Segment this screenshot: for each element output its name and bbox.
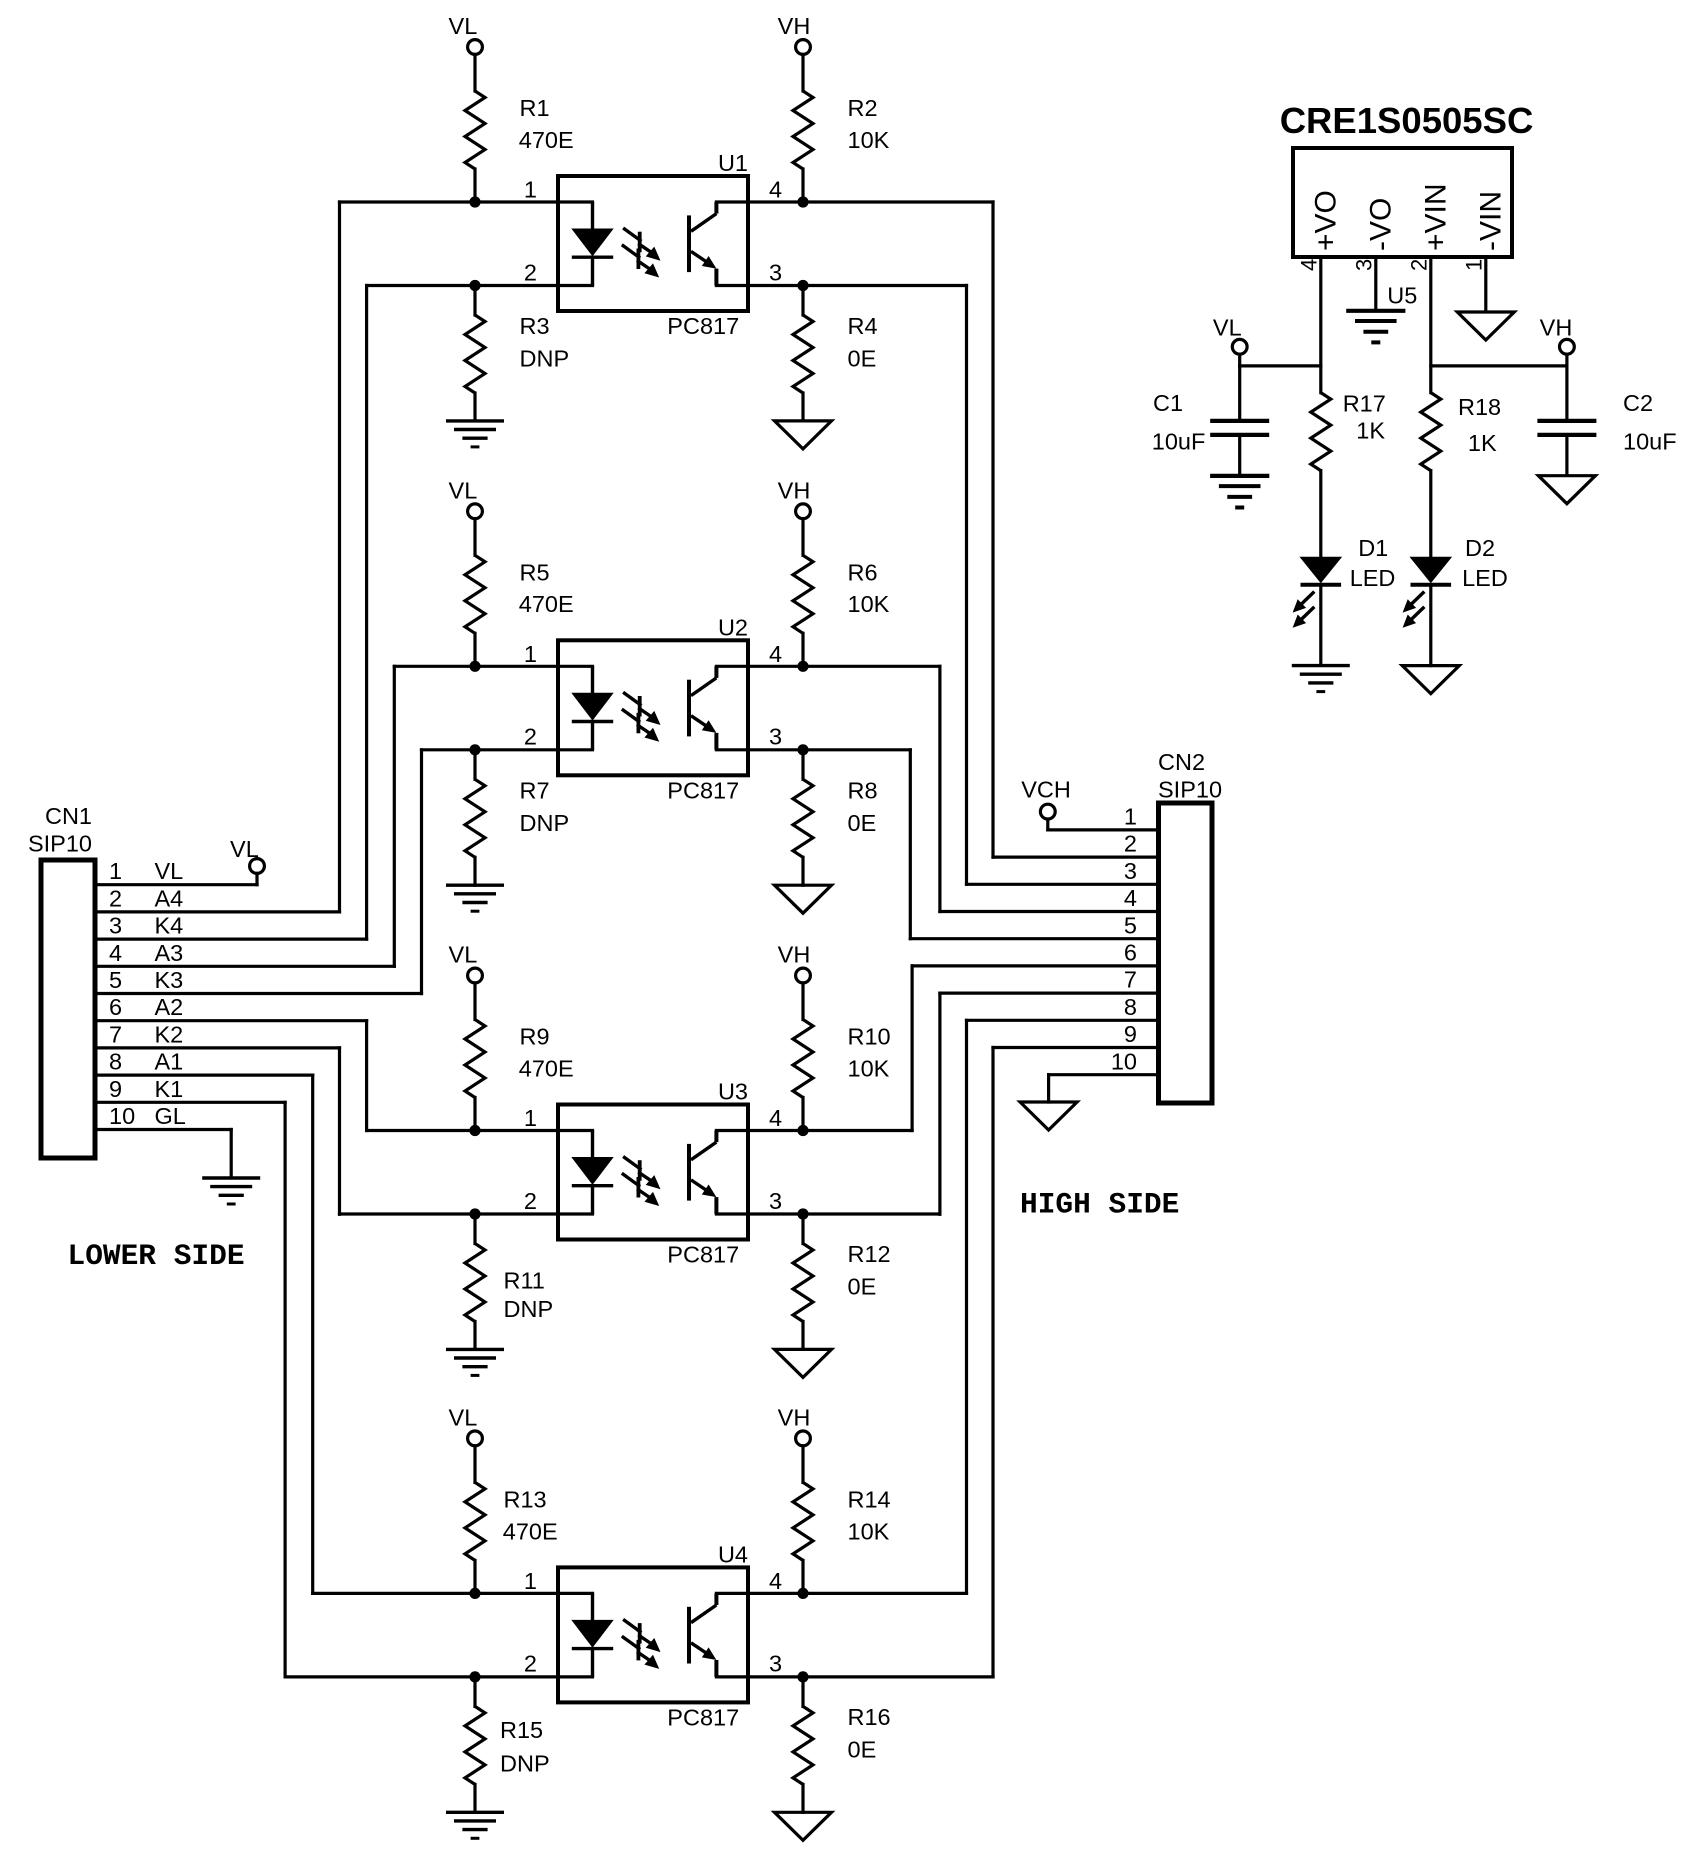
svg-text:2: 2 — [524, 724, 537, 750]
svg-text:2: 2 — [1407, 259, 1432, 271]
label R4 0E — [848, 313, 878, 372]
svg-text:R17: R17 — [1343, 390, 1386, 416]
svg-text:DNP: DNP — [520, 810, 570, 836]
svg-text:C1: C1 — [1153, 390, 1183, 416]
wire U5 pin1 to ground — [1484, 257, 1487, 310]
svg-text:C2: C2 — [1623, 390, 1653, 416]
wire CN2 pin 4 — [940, 910, 1159, 913]
svg-text:VL: VL — [230, 836, 259, 862]
svg-text:1K: 1K — [1356, 418, 1385, 444]
svg-text:R14: R14 — [848, 1487, 891, 1513]
wire CN2 pin 7 — [940, 991, 1159, 994]
svg-text:2: 2 — [524, 1651, 537, 1677]
svg-text:R1: R1 — [520, 95, 550, 121]
junction U1 pin2 — [469, 280, 480, 291]
node VL terminal (U2 anode supply) — [449, 477, 483, 518]
svg-text:CN1: CN1 — [45, 803, 92, 829]
capacitor C1 — [1210, 366, 1269, 474]
wire — [801, 983, 804, 1020]
wire U2 pin3 to CN2 pin5 — [909, 750, 912, 939]
svg-text:1: 1 — [1124, 804, 1137, 830]
wire pin4 U4 — [716, 1592, 966, 1595]
wire pin2 U3 — [340, 1212, 593, 1215]
svg-text:6: 6 — [1124, 940, 1137, 966]
resistor R9 — [465, 1020, 485, 1131]
svg-text:U2: U2 — [718, 614, 748, 640]
ground (lower side) — [446, 885, 504, 911]
wire CN2 pin 3 — [967, 883, 1159, 886]
resistor R17 — [1311, 393, 1331, 558]
svg-text:3: 3 — [769, 259, 782, 285]
svg-text:R13: R13 — [504, 1487, 547, 1513]
ground GL — [202, 1178, 260, 1204]
junction U3 pin3 — [797, 1208, 808, 1219]
svg-text:10K: 10K — [848, 1518, 890, 1544]
wire — [801, 1446, 804, 1483]
wire A1 riser — [311, 1075, 314, 1593]
svg-text:R16: R16 — [848, 1704, 891, 1730]
svg-text:VH: VH — [778, 477, 811, 503]
label R15 DNP — [500, 1717, 550, 1776]
ground (C2) — [1538, 476, 1595, 504]
svg-text:U3: U3 — [718, 1079, 748, 1105]
ground (high side) — [775, 885, 832, 913]
svg-text:3: 3 — [109, 913, 122, 939]
node VL terminal (U3 anode supply) — [449, 942, 483, 983]
resistor R1 — [465, 91, 485, 202]
wire — [473, 983, 476, 1020]
svg-text:PC817: PC817 — [667, 313, 739, 339]
wire CN2 pin 8 — [967, 1019, 1159, 1022]
svg-text:2: 2 — [524, 259, 537, 285]
wire CN2 pin 6 — [912, 964, 1158, 967]
label R8 0E — [848, 777, 878, 836]
wire CN1 pin 3 K4 — [95, 937, 367, 940]
label R17 1K — [1343, 390, 1386, 443]
label R14 10K — [848, 1487, 891, 1545]
svg-text:5: 5 — [1124, 912, 1137, 938]
resistor R16 — [793, 1677, 813, 1812]
wire CN1 pin 2 A4 — [95, 910, 340, 913]
svg-text:+VO: +VO — [1309, 190, 1342, 251]
svg-text:-VO: -VO — [1364, 198, 1397, 251]
wire pin3 U4 — [716, 1675, 993, 1678]
svg-text:DNP: DNP — [500, 1750, 550, 1776]
resistor R12 — [793, 1214, 813, 1349]
label R10 10K — [848, 1024, 891, 1082]
label R12 0E — [848, 1241, 891, 1299]
label R7 DNP — [520, 777, 570, 836]
svg-text:PC817: PC817 — [667, 777, 739, 803]
wire U1 pin4 to CN2 pin2 — [991, 202, 994, 857]
svg-text:VL: VL — [449, 477, 478, 503]
svg-text:K3: K3 — [155, 967, 184, 993]
resistor R11 — [465, 1214, 485, 1349]
svg-text:VCH: VCH — [1021, 776, 1071, 802]
svg-text:VL: VL — [449, 942, 478, 968]
optocoupler U1 PC817 — [558, 176, 748, 311]
junction U4 pin4 — [797, 1588, 808, 1599]
svg-text:+VIN: +VIN — [1419, 183, 1452, 251]
node VH terminal — [778, 942, 811, 983]
svg-text:2: 2 — [109, 885, 122, 911]
node VL terminal (U4 anode supply) — [449, 1405, 483, 1446]
svg-text:8: 8 — [1124, 994, 1137, 1020]
svg-text:6: 6 — [109, 994, 122, 1020]
svg-text:10: 10 — [1111, 1048, 1137, 1074]
connector CN2 SIP10 — [1159, 803, 1213, 1103]
svg-text:0E: 0E — [848, 1737, 877, 1763]
wire pin4 U1 — [716, 200, 993, 203]
wire CN1 pin 7 K2 — [95, 1046, 340, 1049]
LED D2 — [1403, 557, 1452, 665]
resistor R18 — [1421, 393, 1441, 558]
wire CN2 pin 5 — [910, 937, 1158, 940]
wire U3 pin4 to CN2 pin6 — [910, 966, 913, 1131]
label R16 0E — [848, 1704, 891, 1763]
connector CN1 SIP10 — [41, 860, 95, 1158]
ground (U5 -VO) — [1346, 311, 1405, 343]
junction U2 pin4 — [797, 661, 808, 672]
wire CN1 pin 1 VL — [95, 883, 257, 886]
svg-text:470E: 470E — [519, 127, 574, 153]
wire CN1 pin 4 A3 — [95, 965, 394, 968]
wire U2 pin4 to CN2 pin4 — [938, 666, 941, 911]
wire U5 pin3 to ground — [1374, 257, 1377, 309]
ground (high side) — [775, 1349, 832, 1377]
label R18 1K — [1458, 394, 1501, 456]
svg-text:VL: VL — [155, 858, 184, 884]
svg-text:3: 3 — [769, 724, 782, 750]
node VH terminal (input) — [1540, 315, 1575, 355]
wire pin1 U2 — [394, 665, 592, 668]
svg-text:U4: U4 — [718, 1541, 748, 1567]
svg-text:1: 1 — [524, 1568, 537, 1594]
junction U1 pin4 — [797, 196, 808, 207]
svg-text:4: 4 — [1297, 259, 1322, 271]
wire K1 riser — [284, 1102, 287, 1677]
wire CN1 pin 8 A1 — [95, 1073, 313, 1076]
svg-text:10uF: 10uF — [1623, 428, 1677, 454]
junction U3 pin1 — [469, 1125, 480, 1136]
svg-text:470E: 470E — [503, 1518, 558, 1544]
svg-text:3: 3 — [1352, 259, 1377, 271]
svg-text:R2: R2 — [848, 95, 878, 121]
resistor R5 — [465, 555, 485, 666]
optocoupler U3 PC817 — [558, 1105, 748, 1240]
svg-text:A3: A3 — [155, 940, 184, 966]
svg-text:R8: R8 — [848, 777, 878, 803]
wire K2 riser — [338, 1048, 341, 1214]
svg-text:CN2: CN2 — [1158, 749, 1205, 775]
svg-text:1: 1 — [524, 1105, 537, 1131]
wire pin1 U1 — [340, 200, 593, 203]
svg-text:2: 2 — [524, 1188, 537, 1214]
ground (U5 -VIN) — [1457, 312, 1514, 340]
svg-text:LED: LED — [1350, 565, 1396, 591]
svg-text:R6: R6 — [848, 560, 878, 586]
resistor R7 — [465, 750, 485, 885]
svg-text:3: 3 — [769, 1651, 782, 1677]
svg-text:CRE1S0505SC: CRE1S0505SC — [1280, 100, 1534, 141]
svg-text:10K: 10K — [848, 591, 890, 617]
svg-text:PC817: PC817 — [667, 1242, 739, 1268]
ground (lower side) — [446, 1812, 504, 1838]
svg-text:4: 4 — [769, 177, 782, 203]
svg-text:A2: A2 — [155, 994, 184, 1020]
svg-text:4: 4 — [769, 1568, 782, 1594]
svg-text:U5: U5 — [1387, 282, 1417, 308]
ground (lower side) — [446, 421, 504, 447]
wire A2 riser — [365, 1021, 368, 1131]
label R9 470E — [519, 1024, 574, 1082]
svg-text:R9: R9 — [520, 1024, 550, 1050]
label D2 LED — [1462, 535, 1508, 591]
wire A3 riser — [393, 666, 396, 966]
ground (D2) — [1402, 666, 1459, 694]
wire U1 pin3 to CN2 pin3 — [965, 286, 968, 885]
wire K4 riser — [365, 286, 368, 940]
svg-text:SIP10: SIP10 — [1158, 776, 1222, 802]
wire U5 pin4 (+VO) — [1319, 257, 1322, 393]
label D1 LED — [1350, 535, 1396, 591]
wire pin2 U1 — [367, 284, 593, 287]
resistor R15 — [465, 1677, 485, 1812]
ground (C1) — [1210, 476, 1269, 508]
resistor R4 — [793, 286, 813, 421]
svg-text:R7: R7 — [520, 777, 550, 803]
svg-text:GL: GL — [155, 1103, 186, 1129]
svg-text:8: 8 — [109, 1049, 122, 1075]
svg-text:R5: R5 — [520, 560, 550, 586]
svg-text:HIGH SIDE: HIGH SIDE — [1020, 1187, 1179, 1221]
svg-text:9: 9 — [1124, 1021, 1137, 1047]
svg-text:LED: LED — [1462, 565, 1508, 591]
ground (lower side) — [446, 1349, 504, 1375]
capacitor C2 — [1537, 366, 1596, 474]
svg-text:K1: K1 — [155, 1076, 184, 1102]
svg-text:1: 1 — [524, 177, 537, 203]
node VH terminal — [778, 13, 811, 54]
junction U3 pin4 — [797, 1125, 808, 1136]
svg-text:10K: 10K — [848, 1055, 890, 1081]
svg-text:470E: 470E — [519, 1055, 574, 1081]
svg-text:VH: VH — [778, 13, 811, 39]
svg-text:R11: R11 — [504, 1268, 545, 1294]
wire — [801, 519, 804, 556]
wire — [801, 54, 804, 91]
wire pin1 U4 — [313, 1592, 593, 1595]
resistor R3 — [465, 286, 485, 421]
svg-text:3: 3 — [1124, 858, 1137, 884]
wire U4 pin3 to CN2 pin9 — [991, 1048, 994, 1677]
optocoupler U4 PC817 — [558, 1567, 748, 1702]
junction U4 pin1 — [469, 1588, 480, 1599]
label R3 DNP — [520, 313, 570, 372]
resistor R2 — [793, 91, 813, 202]
svg-text:-VIN: -VIN — [1474, 191, 1507, 251]
wire VL rail — [1238, 354, 1241, 366]
junction U2 pin1 — [469, 661, 480, 672]
label R11 DNP — [504, 1268, 554, 1322]
ground (CN2 pin10) — [1020, 1102, 1077, 1130]
svg-text:7: 7 — [1124, 967, 1137, 993]
wire pin2 U2 — [422, 748, 593, 751]
wire pin4 U2 — [716, 665, 940, 668]
svg-text:4: 4 — [109, 940, 122, 966]
svg-text:0E: 0E — [848, 810, 877, 836]
wire VH rail — [1565, 354, 1568, 366]
node VL terminal (U1 anode supply) — [449, 13, 483, 54]
junction U4 pin2 — [469, 1671, 480, 1682]
wire CN2 pin 1 — [1048, 828, 1159, 831]
wire pin4 U3 — [716, 1129, 912, 1132]
wire pin2 U4 — [285, 1675, 592, 1678]
svg-text:4: 4 — [769, 641, 782, 667]
wire pin3 U3 — [716, 1212, 940, 1215]
svg-text:7: 7 — [109, 1021, 122, 1047]
svg-text:DNP: DNP — [520, 346, 570, 372]
svg-text:10K: 10K — [848, 127, 890, 153]
LED D1 — [1293, 557, 1342, 663]
svg-text:0E: 0E — [848, 1273, 877, 1299]
svg-text:10: 10 — [109, 1103, 135, 1129]
svg-text:K2: K2 — [155, 1021, 184, 1047]
svg-text:VL: VL — [449, 13, 478, 39]
svg-text:1: 1 — [1462, 259, 1487, 271]
svg-text:D2: D2 — [1465, 535, 1495, 561]
DC-DC converter U5 CRE1S0505SC — [1293, 148, 1512, 257]
wire CN2 pin 2 — [993, 855, 1159, 858]
svg-text:5: 5 — [109, 967, 122, 993]
node VL terminal (CN1 pin1) — [230, 836, 264, 885]
label R5 470E — [519, 560, 574, 618]
junction U1 pin3 — [797, 280, 808, 291]
wire CN1 pin 5 K3 — [95, 992, 422, 995]
svg-text:4: 4 — [1124, 885, 1137, 911]
node VH terminal — [778, 477, 811, 518]
wire CN2 pin 9 — [993, 1046, 1159, 1049]
svg-text:SIP10: SIP10 — [28, 831, 92, 857]
wire pin3 U2 — [716, 748, 910, 751]
svg-text:1: 1 — [109, 858, 122, 884]
svg-text:9: 9 — [109, 1076, 122, 1102]
ground (D1) — [1292, 666, 1350, 692]
wire GL to ground — [230, 1130, 233, 1177]
wire — [473, 54, 476, 91]
wire CN2 pin10 to ground — [1047, 1075, 1050, 1102]
junction U2 pin2 — [469, 744, 480, 755]
wire CN1 pin 9 K1 — [95, 1101, 285, 1104]
svg-text:LOWER SIDE: LOWER SIDE — [68, 1239, 245, 1273]
label R1 470E — [519, 95, 574, 153]
wire CN1 pin 6 A2 — [95, 1019, 367, 1022]
wire — [473, 1446, 476, 1483]
svg-text:R10: R10 — [848, 1024, 891, 1050]
label C1 10uF — [1152, 390, 1206, 454]
svg-text:10uF: 10uF — [1152, 428, 1206, 454]
svg-text:1: 1 — [524, 641, 537, 667]
svg-text:VL: VL — [1213, 315, 1242, 341]
wire K3 riser — [420, 750, 423, 994]
svg-text:VL: VL — [449, 1405, 478, 1431]
ground (high side) — [775, 421, 832, 449]
svg-text:U1: U1 — [718, 150, 748, 176]
junction U3 pin2 — [469, 1208, 480, 1219]
wire A4 riser — [338, 202, 341, 912]
svg-text:1K: 1K — [1468, 430, 1497, 456]
svg-text:R3: R3 — [520, 313, 550, 339]
optocoupler U2 PC817 — [558, 640, 748, 775]
node VL terminal (output) — [1213, 315, 1247, 355]
svg-text:VH: VH — [1540, 315, 1573, 341]
svg-text:R15: R15 — [500, 1717, 543, 1743]
resistor R10 — [793, 1020, 813, 1131]
wire pin1 U3 — [367, 1129, 593, 1132]
svg-text:R18: R18 — [1458, 394, 1501, 420]
label C2 10uF — [1623, 390, 1677, 454]
node VCH terminal — [1021, 776, 1071, 830]
svg-text:A1: A1 — [155, 1049, 184, 1075]
wire — [473, 519, 476, 556]
svg-text:0E: 0E — [848, 346, 877, 372]
svg-text:D1: D1 — [1358, 535, 1388, 561]
label R2 10K — [848, 95, 890, 153]
svg-text:VH: VH — [778, 942, 811, 968]
wire pin3 U1 — [716, 284, 966, 287]
label R6 10K — [848, 560, 890, 618]
resistor R13 — [465, 1482, 485, 1593]
svg-text:K4: K4 — [155, 913, 184, 939]
junction U1 pin1 — [469, 196, 480, 207]
svg-text:470E: 470E — [519, 591, 574, 617]
wire U5 pin2 (+VIN) — [1429, 257, 1432, 393]
wire CN1 pin 10 GL — [95, 1128, 231, 1131]
resistor R6 — [793, 555, 813, 666]
svg-text:VH: VH — [778, 1405, 811, 1431]
wire U4 pin4 to CN2 pin8 — [965, 1020, 968, 1593]
svg-text:4: 4 — [769, 1105, 782, 1131]
label R13 470E — [503, 1487, 558, 1545]
wire CN2 pin 10 — [1049, 1073, 1159, 1076]
ground (high side) — [775, 1812, 832, 1840]
resistor R14 — [793, 1482, 813, 1593]
node VH terminal — [778, 1405, 811, 1446]
svg-text:DNP: DNP — [504, 1296, 554, 1322]
svg-text:PC817: PC817 — [667, 1704, 739, 1730]
svg-text:A4: A4 — [155, 885, 184, 911]
svg-text:R12: R12 — [848, 1241, 891, 1267]
svg-text:3: 3 — [769, 1188, 782, 1214]
svg-text:2: 2 — [1124, 831, 1137, 857]
wire U3 pin3 to CN2 pin7 — [938, 993, 941, 1214]
junction U4 pin3 — [797, 1671, 808, 1682]
resistor R8 — [793, 750, 813, 885]
junction U2 pin3 — [797, 744, 808, 755]
svg-text:R4: R4 — [848, 313, 878, 339]
